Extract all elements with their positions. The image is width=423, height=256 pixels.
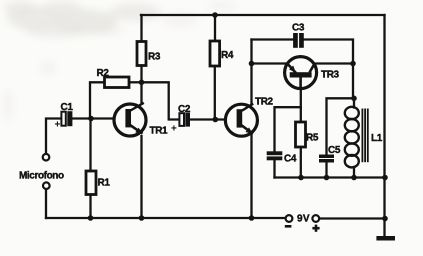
svg-text:C2: C2 [178,104,191,115]
svg-text:R3: R3 [148,51,161,62]
svg-text:9V: 9V [297,214,310,225]
svg-text:+: + [171,124,177,135]
svg-text:L1: L1 [371,133,383,144]
svg-text:C4: C4 [284,154,297,165]
svg-text:R5: R5 [306,132,319,143]
svg-text:TR1: TR1 [150,126,169,137]
svg-text:C1: C1 [61,102,74,113]
svg-text:TR3: TR3 [321,69,340,80]
svg-text:R4: R4 [221,50,234,61]
svg-text:TR2: TR2 [255,96,274,107]
svg-text:Microfono: Microfono [19,171,64,182]
svg-text:C5: C5 [328,145,341,156]
svg-text:R2: R2 [97,68,110,79]
svg-text:+: + [55,120,61,131]
svg-text:C3: C3 [292,23,305,34]
svg-text:R1: R1 [98,178,111,189]
